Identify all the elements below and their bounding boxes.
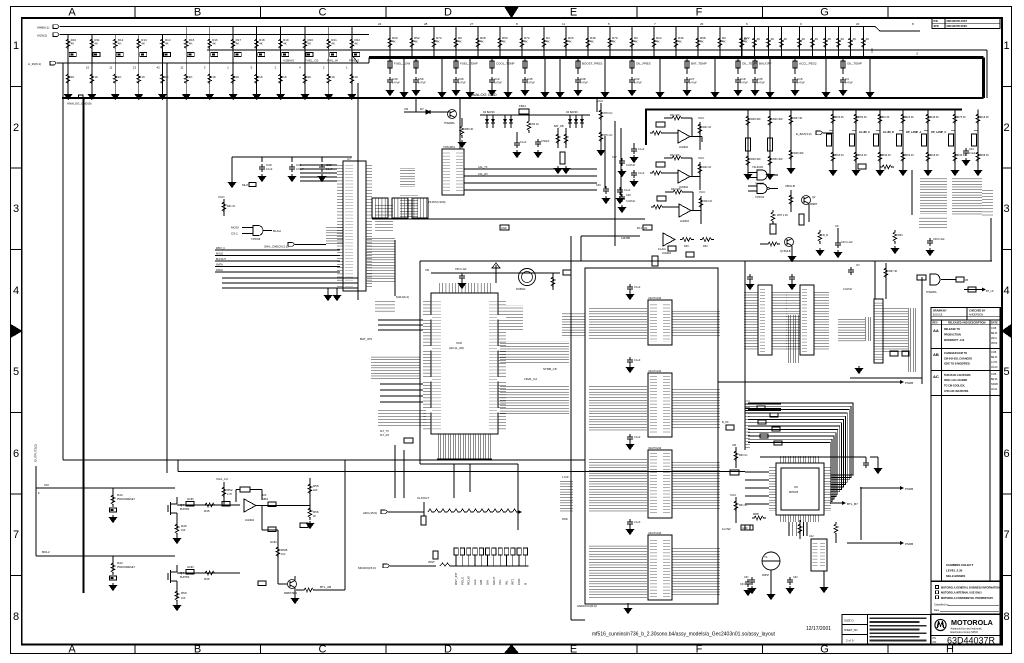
svg-text:SOUT: SOUT (492, 576, 496, 585)
svg-text:A: A (68, 644, 76, 656)
svg-text:1.1UF: 1.1UF (562, 476, 569, 479)
svg-text:0.1uF: 0.1uF (624, 189, 631, 192)
svg-text:11: 11 (109, 66, 112, 70)
svg-text:R18 4K: R18 4K (981, 116, 990, 119)
svg-text:CM-542-002, CHANGED: CM-542-002, CHANGED (944, 357, 972, 360)
svg-text:WARRANTY -L02: WARRANTY -L02 (944, 339, 965, 342)
svg-text:ANALOG GND: ANALOG GND (470, 92, 497, 97)
svg-text:OP_LAMP_A: OP_LAMP_A (906, 131, 921, 134)
svg-text:24: 24 (378, 22, 382, 26)
svg-text:ILLUM_A: ILLUM_A (859, 131, 870, 134)
svg-text:4K: 4K (458, 40, 462, 44)
svg-text:DLY_IN: DLY_IN (637, 226, 647, 230)
svg-text:63D44037R: 63D44037R (947, 635, 996, 645)
svg-text:INT1: INT1 (511, 578, 515, 585)
svg-text:RELEASED AND DESCRIPTION: RELEASED AND DESCRIPTION (948, 322, 986, 325)
svg-text:2N11: 2N11 (991, 337, 997, 340)
svg-text:AI2S(1): AI2S(1) (37, 34, 47, 38)
svg-text:A_30(6:1): A_30(6:1) (28, 62, 41, 66)
svg-text:THIS RAN 1.0125/1905,: THIS RAN 1.0125/1905, (944, 374, 971, 377)
svg-text:74HC00: 74HC00 (755, 196, 765, 199)
svg-text:FLT_TX: FLT_TX (380, 430, 389, 433)
svg-text:B.DUCE: B.DUCE (933, 314, 943, 317)
svg-text:4K: 4K (656, 40, 660, 44)
svg-text:R2 1C: R2 1C (532, 123, 539, 126)
svg-text:R50: R50 (181, 591, 187, 595)
svg-text:74HC4051: 74HC4051 (443, 146, 456, 149)
svg-text:0.047uF: 0.047uF (626, 200, 636, 203)
svg-text:C7: C7 (347, 157, 351, 161)
svg-text:ICKE TO B MODIFIED.: ICKE TO B MODIFIED. (944, 363, 971, 366)
svg-text:C56: C56 (418, 77, 424, 81)
svg-text:C30: C30 (392, 77, 398, 81)
svg-text:R88: R88 (753, 512, 759, 516)
svg-text:FUEL_O2: FUEL_O2 (305, 59, 319, 63)
svg-text:1K: 1K (259, 75, 263, 79)
svg-text:0.1uF: 0.1uF (634, 286, 641, 289)
svg-text:PN: PN (933, 637, 937, 640)
svg-text:4K: 4K (700, 40, 704, 44)
svg-text:4: 4 (1003, 285, 1009, 297)
svg-text:U9: U9 (794, 485, 798, 489)
svg-text:COOL_TEMP: COOL_TEMP (496, 62, 515, 66)
svg-text:R63 4C: R63 4C (906, 154, 915, 157)
svg-text:TO CM-COOLICK,: TO CM-COOLICK, (944, 385, 965, 388)
svg-text:1K: 1K (308, 75, 312, 79)
svg-text:SIZE D: SIZE D (844, 619, 855, 623)
svg-text:0.47uF: 0.47uF (527, 82, 535, 85)
svg-text:4K: 4K (308, 42, 312, 46)
svg-text:RELEASE TO: RELEASE TO (944, 328, 960, 331)
svg-text:11: 11 (562, 22, 565, 26)
svg-text:SHEET_NO: SHEET_NO (844, 629, 858, 632)
svg-text:DRAWN BY: DRAWN BY (933, 310, 947, 313)
svg-text:4K: 4K (853, 37, 857, 41)
svg-text:BOL2: BOL2 (42, 550, 50, 554)
svg-text:C61: C61 (744, 576, 749, 579)
svg-text:MOTOROLA: MOTOROLA (951, 618, 993, 627)
svg-text:G: G (820, 7, 829, 19)
svg-text:CUMMINS CELECT: CUMMINS CELECT (946, 563, 973, 567)
svg-text:R63 4C: R63 4C (836, 154, 845, 157)
svg-text:WDX_C: WDX_C (216, 247, 225, 250)
svg-text:42: 42 (157, 66, 161, 70)
svg-text:CHECKED BY: CHECKED BY (969, 310, 986, 313)
svg-text:FLAG: FLAG (658, 247, 667, 251)
svg-text:STRB_C8: STRB_C8 (543, 367, 557, 371)
svg-text:7: 7 (1003, 529, 1009, 541)
svg-text:1K: 1K (212, 75, 216, 79)
svg-text:VBULB: VBULB (785, 184, 795, 188)
svg-text:ADC(15:0): ADC(15:0) (363, 511, 377, 515)
svg-text:B: B (194, 644, 201, 656)
svg-text:6: 6 (1003, 448, 1009, 460)
svg-text:Electronics Group SPUD: Electronics Group SPUD (951, 631, 979, 634)
svg-text:GND: GND (270, 540, 278, 544)
svg-text:R47 4K: R47 4K (794, 117, 803, 120)
svg-text:1LOW: 1LOW (722, 527, 731, 531)
svg-text:4: 4 (13, 285, 19, 297)
svg-text:R56 4K: R56 4K (859, 116, 868, 119)
svg-text:ICKE LAG LOADED: ICKE LAG LOADED (944, 379, 967, 382)
svg-text:1K: 1K (236, 75, 240, 79)
svg-text:ANALOG_GND(9): ANALOG_GND(9) (67, 102, 92, 106)
svg-text:R55: R55 (313, 484, 319, 488)
svg-text:CHANGED ECM TO: CHANGED ECM TO (944, 352, 967, 355)
svg-text:AA: AA (933, 328, 939, 333)
svg-text:SSNB: SSNB (991, 383, 998, 386)
svg-text:05/00: 05/00 (991, 342, 998, 345)
svg-text:C48 0.4uF: C48 0.4uF (933, 238, 945, 241)
svg-text:74157(C160): 74157(C160) (428, 200, 446, 204)
svg-text:CLC: CLC (871, 48, 874, 53)
svg-text:BLAH: BLAH (273, 229, 281, 233)
svg-text:BETA: BETA (991, 356, 998, 359)
svg-text:4K: 4K (480, 40, 484, 44)
svg-text:R93: R93 (898, 234, 903, 237)
svg-text:10K: 10K (181, 597, 186, 600)
svg-text:VN: VN (856, 264, 860, 267)
svg-text:LM385: LM385 (621, 236, 631, 240)
svg-text:4K: 4K (771, 37, 775, 41)
svg-text:5: 5 (1003, 366, 1009, 378)
svg-text:4K: 4K (94, 42, 98, 46)
svg-text:R70 1C: R70 1C (604, 112, 613, 115)
svg-text:VCC: VCC (698, 116, 705, 120)
svg-text:10K: 10K (262, 494, 267, 497)
svg-text:BTL_AB: BTL_AB (320, 585, 331, 589)
svg-text:FLT_RX: FLT_RX (380, 434, 389, 437)
svg-text:R61 1C: R61 1C (739, 504, 748, 507)
svg-text:R45: R45 (204, 509, 210, 513)
svg-text:D4 BAV99: D4 BAV99 (566, 111, 578, 114)
svg-text:1K: 1K (118, 75, 122, 79)
svg-text:U12: U12 (809, 535, 814, 538)
svg-text:GND: GND (187, 565, 195, 569)
svg-text:4K: 4K (392, 40, 396, 44)
svg-text:4K: 4K (678, 40, 682, 44)
svg-text:R48 40K: R48 40K (751, 118, 761, 121)
svg-text:XMTA: XMTA (216, 264, 223, 267)
svg-text:OP_LAMP_C: OP_LAMP_C (931, 131, 946, 134)
svg-text:AB: AB (933, 352, 939, 357)
svg-text:ILLUM_B: ILLUM_B (883, 131, 894, 134)
svg-text:PWRONRESET: PWRONRESET (117, 498, 135, 501)
svg-text:F: F (38, 491, 40, 495)
svg-text:R40: R40 (703, 245, 708, 248)
svg-text:C35: C35 (757, 77, 763, 81)
svg-text:R40 4C: R40 4C (883, 154, 892, 157)
svg-text:R44: R44 (117, 493, 123, 497)
svg-text:C64: C64 (740, 583, 745, 586)
svg-text:0.47uF: 0.47uF (580, 82, 588, 85)
svg-text:C12: C12 (494, 77, 500, 81)
svg-text:ALE: ALE (473, 579, 477, 585)
svg-text:12/17/2001: 12/17/2001 (806, 626, 831, 632)
svg-text:Q3 BULB: Q3 BULB (780, 250, 791, 253)
svg-text:4K: 4K (313, 515, 316, 518)
svg-text:1K: 1K (331, 75, 335, 79)
svg-text:1K: 1K (141, 75, 145, 79)
svg-text:0.47uF: 0.47uF (458, 82, 466, 85)
svg-text:20: 20 (856, 22, 860, 26)
svg-text:VCC: VCC (699, 190, 706, 194)
svg-text:4K: 4K (259, 42, 263, 46)
svg-text:Y1: Y1 (764, 555, 768, 559)
svg-text:NO.: NO. (933, 641, 938, 644)
svg-text:MOLE: MOLE (216, 253, 223, 256)
svg-text:MOTOROLA GENERAL BUSINESS INFO: MOTOROLA GENERAL BUSINESS INFORMATION (941, 587, 1000, 590)
svg-text:15: 15 (86, 66, 90, 70)
svg-text:4K: 4K (524, 40, 528, 44)
svg-text:0.47uF: 0.47uF (392, 82, 400, 85)
svg-text:1K: 1K (71, 75, 75, 79)
svg-text:RXDA: RXDA (216, 269, 223, 272)
svg-text:R60 1C: R60 1C (739, 454, 748, 457)
svg-text:E: E (570, 7, 577, 19)
svg-text:0.1uF: 0.1uF (266, 168, 273, 171)
svg-text:4K: 4K (866, 37, 870, 41)
svg-text:4K: 4K (141, 42, 145, 46)
svg-text:MOTOROLA INTERNAL USE ONLY: MOTOROLA INTERNAL USE ONLY (941, 592, 982, 595)
svg-text:C36: C36 (458, 77, 464, 81)
svg-text:mf516_cunnins/n736_b_2.30sono.: mf516_cunnins/n736_b_2.30sono.b4/assy_mo… (592, 632, 776, 638)
svg-text:PSDB: PSDB (905, 381, 913, 385)
svg-text:SHA_CHECK(1:1): SHA_CHECK(1:1) (264, 245, 289, 249)
svg-text:BT_L8: BT_L8 (986, 290, 994, 293)
svg-text:FUEL_TEMP: FUEL_TEMP (460, 62, 478, 66)
svg-text:THERMA: THERMA (444, 122, 455, 125)
svg-text:0.047uF: 0.047uF (626, 164, 636, 167)
svg-text:4K: 4K (118, 42, 122, 46)
svg-text:0.1uF: 0.1uF (634, 436, 641, 439)
svg-text:0.4uF: 0.4uF (969, 152, 976, 155)
svg-text:F: F (696, 7, 703, 19)
svg-text:MICRO(15:0): MICRO(15:0) (358, 566, 376, 570)
svg-text:0.1uF: 0.1uF (634, 521, 641, 524)
svg-text:C37: C37 (612, 156, 617, 159)
svg-text:B_OK: B_OK (722, 421, 729, 424)
svg-text:INL: INL (504, 580, 508, 585)
svg-text:4K: 4K (590, 40, 594, 44)
svg-text:6: 6 (13, 448, 19, 460)
svg-text:SEL2-BSNW1: SEL2-BSNW1 (946, 574, 966, 578)
svg-text:10K: 10K (181, 529, 186, 532)
svg-text:4K: 4K (784, 37, 788, 41)
svg-text:L5M1_C2: L5M1_C2 (524, 377, 537, 381)
svg-text:COK: COK (517, 578, 521, 585)
svg-text:C39: C39 (596, 184, 601, 187)
svg-text:C: C (319, 644, 327, 656)
svg-text:DATE: DATE (991, 322, 998, 325)
svg-text:4.5BIAS: 4.5BIAS (283, 59, 294, 63)
svg-text:AHB(6:1): AHB(6:1) (37, 26, 49, 30)
svg-text:68HC05: 68HC05 (789, 491, 799, 494)
svg-text:0.47uF: 0.47uF (757, 82, 765, 85)
svg-text:63D44037R SPEC: 63D44037R SPEC (947, 25, 968, 28)
svg-text:CAL_TX: CAL_TX (478, 166, 488, 169)
svg-text:D7: D7 (420, 107, 424, 111)
svg-text:VCC: VCC (730, 493, 737, 497)
svg-text:R23 4K: R23 4K (906, 116, 915, 119)
svg-text:4K: 4K (165, 42, 169, 46)
svg-text:LEVEL 2.30: LEVEL 2.30 (946, 569, 963, 573)
svg-text:C55 0.1uF: C55 0.1uF (455, 268, 467, 271)
svg-text:SPD: SPD (934, 25, 939, 28)
svg-text:R48 4K: R48 4K (931, 116, 940, 119)
svg-text:1K: 1K (354, 75, 358, 79)
svg-text:BOOST_PRES: BOOST_PRES (582, 62, 602, 66)
svg-text:4K: 4K (414, 40, 418, 44)
svg-text:R42 1K: R42 1K (703, 166, 712, 169)
svg-text:2 of 9: 2 of 9 (846, 639, 854, 643)
svg-text:THERMA: THERMA (926, 291, 937, 294)
svg-text:R20 40K: R20 40K (773, 118, 783, 121)
svg-text:E: E (570, 644, 577, 656)
svg-text:CS-1: CS-1 (231, 232, 238, 236)
svg-text:0.47uF: 0.47uF (797, 82, 805, 85)
svg-text:4K: 4K (189, 42, 193, 46)
svg-text:C30: C30 (266, 163, 272, 167)
svg-text:INST: INST (428, 560, 435, 564)
svg-text:1K: 1K (94, 75, 98, 79)
svg-text:PRODUCTION: PRODUCTION (944, 334, 961, 337)
svg-text:R16 4C: R16 4C (859, 154, 868, 157)
svg-text:0.1uF: 0.1uF (638, 148, 645, 151)
svg-text:2: 2 (13, 122, 19, 134)
svg-text:28: 28 (424, 22, 428, 26)
svg-text:4K: 4K (802, 37, 806, 41)
svg-text:0.1uF: 0.1uF (520, 141, 527, 144)
svg-text:(HC11_A8): (HC11_A8) (449, 346, 464, 350)
svg-text:LM2904: LM2904 (245, 519, 255, 522)
svg-text:OIL_PRES: OIL_PRES (636, 62, 651, 66)
svg-text:VF: VF (835, 224, 839, 228)
svg-text:74HC00: 74HC00 (752, 165, 763, 169)
svg-text:R41 1K: R41 1K (703, 126, 712, 129)
svg-text:1: 1 (13, 40, 19, 52)
svg-text:R68 4C: R68 4C (981, 154, 990, 157)
svg-text:R75 4K: R75 4K (958, 116, 967, 119)
svg-text:26: 26 (700, 22, 704, 26)
svg-text:GND: GND (501, 227, 507, 230)
svg-text:R66 4K: R66 4K (465, 128, 474, 131)
svg-text:0.47uF: 0.47uF (845, 82, 853, 85)
svg-text:RNB: RNB (281, 548, 287, 552)
svg-text:FW8002: FW8002 (516, 288, 526, 291)
svg-text:4K: 4K (212, 42, 216, 46)
svg-text:63D44037R ASSY: 63D44037R ASSY (947, 20, 968, 23)
svg-text:0.47uF: 0.47uF (494, 82, 502, 85)
svg-text:11: 11 (180, 66, 183, 70)
svg-text:4K: 4K (828, 37, 832, 41)
svg-text:FB: FB (965, 279, 969, 282)
svg-text:5: 5 (13, 366, 19, 378)
svg-text:C15: C15 (797, 77, 803, 81)
svg-text:VCC: VCC (597, 99, 604, 103)
svg-text:MMBT3904: MMBT3904 (284, 592, 298, 595)
svg-text:0.1uF: 0.1uF (634, 359, 641, 362)
svg-text:IHB: IHB (479, 580, 483, 585)
svg-text:4K: 4K (744, 37, 748, 41)
svg-text:4K: 4K (841, 37, 845, 41)
svg-text:R_B: R_B (823, 234, 828, 237)
svg-text:R49: R49 (181, 524, 187, 528)
svg-text:C38: C38 (626, 194, 631, 197)
svg-text:R48 40K: R48 40K (794, 152, 804, 155)
svg-text:D: D (444, 7, 452, 19)
svg-text:0.47uF: 0.47uF (418, 82, 426, 85)
svg-text:OIL_TEMP: OIL_TEMP (847, 62, 862, 66)
svg-text:RST_INT: RST_INT (454, 572, 458, 585)
svg-text:BTL_B7: BTL_B7 (847, 502, 858, 506)
svg-text:AC: AC (933, 374, 939, 379)
svg-text:MMBT: MMBT (810, 203, 818, 206)
svg-text:LM2904: LM2904 (680, 220, 690, 223)
svg-text:1: 1 (1003, 40, 1009, 52)
svg-text:SAI: SAI (486, 580, 490, 585)
svg-text:C3: C3 (845, 77, 849, 81)
svg-text:BETA: BETA (991, 378, 998, 381)
svg-text:BAT_TEMP: BAT_TEMP (691, 62, 707, 66)
svg-text:D2 BAV99: D2 BAV99 (483, 111, 495, 114)
svg-text:VGA_LO: VGA_LO (216, 477, 229, 481)
svg-text:CAL_RX: CAL_RX (478, 173, 488, 176)
svg-text:27: 27 (470, 22, 474, 26)
svg-text:P/N: P/N (934, 20, 938, 23)
svg-text:U4A HC244: U4A HC244 (648, 370, 662, 373)
svg-text:C18: C18 (740, 77, 746, 81)
svg-text:E_BAT(4:0): E_BAT(4:0) (796, 132, 811, 136)
svg-text:U0A HC244: U0A HC244 (648, 447, 662, 450)
svg-text:C62: C62 (793, 576, 798, 579)
svg-text:OUTPUTS(2): OUTPUTS(2) (34, 444, 38, 462)
svg-text:U3A HC244: U3A HC244 (648, 297, 662, 300)
svg-text:13: 13 (133, 66, 137, 70)
svg-text:0.47uF: 0.47uF (740, 82, 748, 85)
svg-text:PWL_HI: PWL_HI (327, 59, 338, 63)
svg-text:1K: 1K (189, 75, 193, 79)
svg-text:R33 4K: R33 4K (836, 116, 845, 119)
svg-text:R46: R46 (204, 577, 210, 581)
svg-text:0.1uF: 0.1uF (638, 172, 645, 175)
svg-text:G: G (820, 644, 829, 656)
svg-text:C38: C38 (580, 77, 586, 81)
svg-text:4K: 4K (815, 37, 819, 41)
svg-text:4K: 4K (568, 40, 572, 44)
svg-text:F: F (696, 644, 703, 656)
svg-text:C40 0.1uF: C40 0.1uF (841, 241, 853, 244)
svg-text:4K: 4K (236, 42, 240, 46)
svg-text:R45 4C: R45 4C (958, 154, 967, 157)
svg-text:R0 4K: R0 4K (883, 116, 890, 119)
svg-text:4MHZ: 4MHZ (762, 574, 769, 577)
svg-text:CCB: CCB (991, 327, 997, 330)
svg-text:C: C (319, 7, 327, 19)
svg-text:3: 3 (13, 203, 19, 215)
svg-text:FUEL_LOW: FUEL_LOW (394, 62, 410, 66)
svg-text:MOSI: MOSI (231, 226, 239, 230)
svg-text:MOTOROLA CONFIDENTIAL PROPRIET: MOTOROLA CONFIDENTIAL PROPRIETARY (941, 597, 994, 600)
svg-text:C32: C32 (634, 77, 640, 81)
svg-text:4K: 4K (283, 42, 287, 46)
svg-text:4K: 4K (354, 42, 358, 46)
svg-text:LM2904: LM2904 (662, 252, 672, 255)
svg-text:2: 2 (1003, 122, 1009, 134)
svg-text:R32 10K: R32 10K (670, 154, 680, 157)
svg-text:0-071: 0-071 (991, 361, 998, 364)
svg-text:0.047uF: 0.047uF (843, 288, 853, 291)
